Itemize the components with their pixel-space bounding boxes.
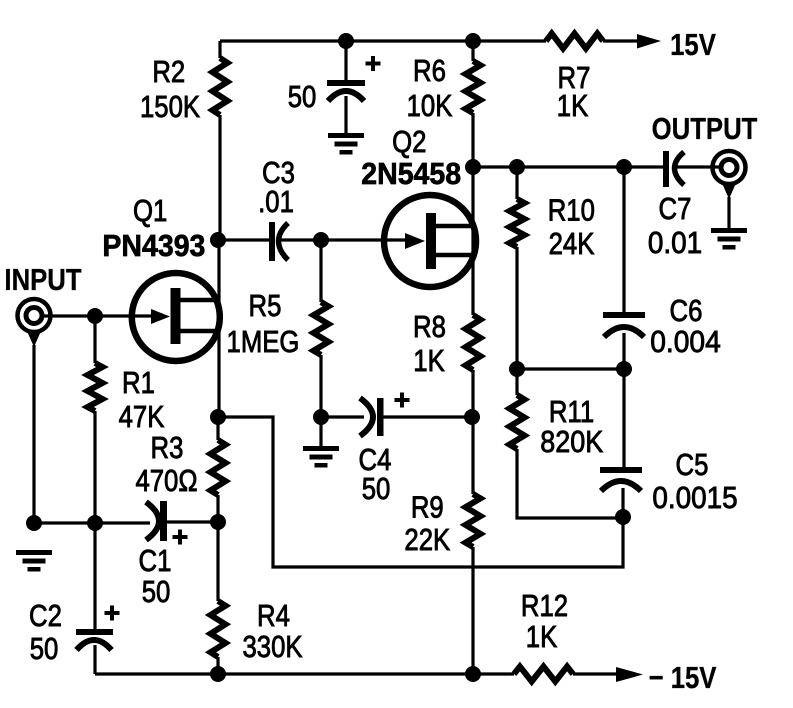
- wire bus between R8 and node: [471, 370, 474, 494]
- svg-text:2N5458: 2N5458: [361, 157, 461, 191]
- capacitor C3: [218, 238, 271, 241]
- capacitor 50 (supply bypass): [344, 41, 347, 80]
- svg-text:R9: R9: [411, 490, 444, 525]
- svg-text:Q1: Q1: [133, 194, 167, 229]
- resistor R2: [218, 41, 221, 58]
- wire top +15V rail left segment: [220, 39, 546, 42]
- ground (input): [16, 550, 52, 555]
- node C1 / R3 / R4: [210, 514, 226, 530]
- svg-text:0.004: 0.004: [650, 325, 721, 360]
- capacitor C6: [622, 167, 625, 312]
- resistor R10: [515, 167, 518, 199]
- svg-text:R6: R6: [413, 54, 446, 89]
- svg-text:R3: R3: [151, 431, 184, 466]
- svg-text:150K: 150K: [140, 90, 200, 125]
- node Q1 drain / R2 / C3: [210, 232, 226, 248]
- capacitor C5: [622, 369, 625, 467]
- node top rail / bypass cap: [338, 33, 354, 49]
- svg-text:R4: R4: [257, 599, 290, 634]
- node C5 bottom / R11 / feedback: [615, 509, 631, 525]
- svg-text:R1: R1: [122, 366, 155, 401]
- transistor Q2 2N5458: [384, 195, 476, 287]
- svg-text:22K: 22K: [404, 523, 450, 558]
- svg-text:820K: 820K: [540, 425, 604, 459]
- svg-text:C2: C2: [29, 599, 62, 634]
- svg-text:R12: R12: [521, 589, 568, 624]
- svg-text:330K: 330K: [242, 630, 302, 665]
- svg-text:.01: .01: [258, 185, 294, 220]
- svg-text:0.0015: 0.0015: [652, 481, 737, 516]
- transistor Q1 PN4393: [132, 273, 220, 361]
- svg-text:C6: C6: [670, 294, 703, 329]
- svg-text:50: 50: [142, 575, 171, 610]
- wire link R10/R11 to C6/C5: [517, 367, 624, 370]
- svg-text:47K: 47K: [119, 400, 165, 435]
- svg-text:R10: R10: [548, 193, 595, 228]
- wire R5 ground stub: [319, 417, 322, 446]
- resistor R1: [93, 316, 96, 363]
- ground (output): [711, 228, 747, 233]
- capacitor C1: [146, 502, 159, 540]
- wire input shield down: [32, 345, 35, 523]
- svg-text:R8: R8: [413, 310, 446, 345]
- svg-text:C5: C5: [676, 448, 709, 483]
- resistor R5: [319, 240, 322, 302]
- -15V arrow: [616, 667, 643, 682]
- resistor R6: [471, 41, 474, 61]
- svg-text:0.01: 0.01: [648, 226, 702, 261]
- svg-text:50: 50: [288, 80, 317, 115]
- node C4 / R8 / R9: [464, 409, 480, 425]
- resistor R11: [515, 369, 518, 395]
- node input / R1 top: [87, 308, 103, 324]
- svg-text:PN4393: PN4393: [102, 229, 205, 263]
- node C3 / R5 / Q2 gate: [313, 232, 329, 248]
- svg-text:R2: R2: [152, 55, 185, 90]
- svg-text:INPUT: INPUT: [4, 263, 82, 298]
- resistor R7: [546, 34, 603, 49]
- wire bottom -15V rail left segment: [95, 672, 514, 675]
- svg-text:1K: 1K: [557, 89, 588, 124]
- resistor R4: [216, 522, 219, 601]
- node R10 / R11: [509, 361, 525, 377]
- svg-text:50: 50: [362, 472, 391, 507]
- svg-text:C7: C7: [659, 192, 692, 227]
- svg-text:50: 50: [30, 632, 59, 667]
- wire output shield to ground: [727, 197, 730, 228]
- svg-text:− 15V: − 15V: [649, 661, 717, 696]
- svg-text:24K: 24K: [549, 227, 595, 262]
- svg-text:470Ω: 470Ω: [135, 464, 197, 499]
- capacitor C7: [663, 151, 669, 187]
- node top rail / R6: [465, 33, 481, 49]
- capacitor C4: [321, 415, 364, 418]
- wire bus to bottom rail: [471, 547, 474, 674]
- node Q1 source / R3 / feedback: [210, 409, 226, 425]
- wire Q1 gate from input: [43, 314, 152, 317]
- INPUT connector: [18, 299, 51, 332]
- svg-text:R5: R5: [249, 289, 282, 324]
- capacitor C2: [93, 523, 96, 629]
- svg-text:C1: C1: [139, 544, 172, 579]
- svg-text:1K: 1K: [413, 344, 444, 379]
- node output / R10 top: [509, 159, 525, 175]
- svg-text:10K: 10K: [407, 89, 453, 124]
- resistor R3: [216, 417, 219, 440]
- node input shield / ground: [26, 515, 42, 531]
- node output / C6 top: [616, 159, 632, 175]
- ground (R5/C4): [303, 446, 339, 451]
- resistor R12: [514, 667, 573, 682]
- wire Q2 drain/source bus: [471, 113, 474, 315]
- +15V arrow: [637, 34, 661, 49]
- resistor R8: [466, 315, 481, 370]
- wire bottom rail right segment: [573, 672, 620, 675]
- wire output node: [473, 165, 665, 168]
- node R5 / C4 / ground: [313, 409, 329, 425]
- wire feedback from Q1 source to C5 bottom: [218, 417, 623, 567]
- svg-text:Q2: Q2: [392, 125, 426, 160]
- node C6 / C5: [616, 361, 632, 377]
- wire Q1 drain-source bus: [217, 240, 220, 417]
- wire top +15V rail right segment: [603, 39, 640, 42]
- node R4 / bottom rail: [210, 666, 226, 682]
- node bus / bottom rail: [465, 666, 481, 682]
- svg-text:15V: 15V: [670, 28, 716, 63]
- svg-text:1MEG: 1MEG: [227, 325, 300, 360]
- wire ground link at input: [34, 521, 150, 524]
- resistor R9: [466, 494, 481, 547]
- node R1 / C2 / C1: [87, 515, 103, 531]
- OUTPUT connector: [713, 151, 746, 184]
- svg-text:1K: 1K: [526, 620, 557, 655]
- ground (supply bypass): [328, 133, 364, 138]
- wire Q2 gate: [321, 238, 410, 241]
- svg-text:OUTPUT: OUTPUT: [652, 112, 758, 147]
- node Q2 drain / output: [465, 159, 481, 175]
